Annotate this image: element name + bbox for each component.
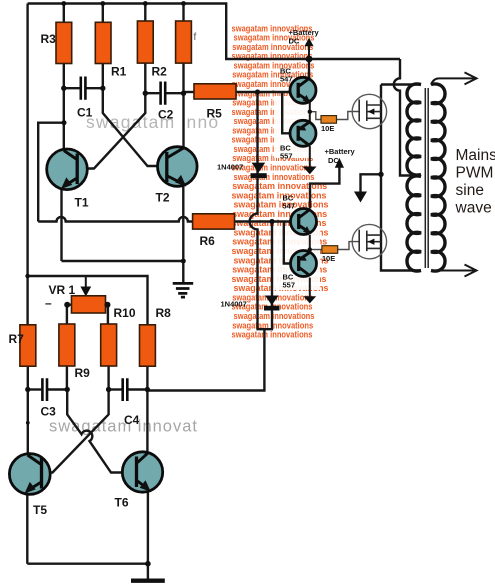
wire R2 top stub xyxy=(144,4,146,23)
wire BC557-2 collector down xyxy=(309,278,311,298)
resistor R3 xyxy=(56,22,72,63)
junction dots top rail xyxy=(61,1,66,6)
arrow secondary bottom xyxy=(465,265,477,277)
resistor R9 xyxy=(59,324,75,366)
junction dot frame to lower line xyxy=(25,274,30,279)
wire MOSFET vertical bus to primary bottom xyxy=(381,85,421,271)
svg-text:1N4007: 1N4007 xyxy=(217,163,243,172)
svg-text:R3: R3 xyxy=(41,32,57,46)
arrow +Battery mid xyxy=(335,158,344,168)
wire C1 left lead xyxy=(64,87,80,89)
resistor 10E upper xyxy=(321,116,337,124)
svg-text:557: 557 xyxy=(280,152,293,161)
junction dot R6 line diode tap xyxy=(269,219,274,224)
svg-text:C3: C3 xyxy=(41,405,57,419)
transistor T5 xyxy=(9,454,50,495)
junction dot C2 left xyxy=(143,91,148,96)
junction dot C3 right xyxy=(65,387,70,392)
svg-text:547: 547 xyxy=(283,202,296,211)
svg-text:PWM: PWM xyxy=(456,165,494,182)
svg-text:R8: R8 xyxy=(156,306,172,320)
wire C3 right lead xyxy=(48,388,67,390)
diode D1 1N4007 xyxy=(252,163,266,173)
MOSFET M1 upper xyxy=(352,94,386,128)
svg-text:R9: R9 xyxy=(75,366,91,380)
wire T6 emitter down xyxy=(147,489,149,564)
junction dot C2 right xyxy=(181,91,186,96)
svg-text:R2: R2 xyxy=(152,65,168,79)
junction dot VR1 left xyxy=(64,302,70,308)
junction dot drive branch xyxy=(62,120,67,125)
wire T2 emitter to ground xyxy=(182,185,184,283)
wire secondary bottom output xyxy=(431,270,475,272)
svg-text:R7: R7 xyxy=(9,332,25,346)
junction dot upper emitters xyxy=(308,110,312,114)
wire emitters to 10E xyxy=(310,112,321,120)
svg-text:DC: DC xyxy=(328,156,339,165)
junction dot C1 left xyxy=(61,86,66,91)
svg-text:C2: C2 xyxy=(158,108,174,122)
white fade patch behind upper driver pair xyxy=(274,96,320,158)
wire R8 to T6 collector xyxy=(146,366,148,453)
svg-text:sine: sine xyxy=(456,182,484,199)
wire R9 to T6 base diagonal (hop at crossing) xyxy=(67,366,127,473)
junction dot C4 right xyxy=(145,387,150,392)
junction dot C3 left xyxy=(25,387,30,392)
wire C2 right lead xyxy=(166,92,183,94)
resistor R2 xyxy=(137,21,153,63)
wire R7 to T5 collector xyxy=(27,366,29,455)
potentiometer VR1 xyxy=(72,296,106,313)
resistor R10 xyxy=(101,324,117,366)
wire C3 left lead xyxy=(28,388,41,390)
wire T2 collector from R4 xyxy=(182,63,184,147)
wire top +V rail xyxy=(28,4,400,60)
wire drive line to R6 (hops T1,T2 emitters) xyxy=(38,217,192,222)
junction dot MOSFET source bus xyxy=(378,172,383,177)
wire VR1 right terminal to R10 xyxy=(106,305,108,325)
wire M1 drain to primary top xyxy=(381,83,421,85)
wire diode feed down-left to lower astable xyxy=(147,329,264,390)
svg-text:C1: C1 xyxy=(77,106,93,120)
transistor BC547 upper (Q1) xyxy=(290,77,316,103)
MOSFET M2 lower xyxy=(352,224,386,258)
resistor R1 xyxy=(95,22,111,63)
wire R3 top stub xyxy=(63,4,65,24)
wire T5 emitter down xyxy=(26,492,28,564)
svg-text:wave: wave xyxy=(455,200,492,217)
svg-text:547: 547 xyxy=(280,75,293,84)
wire R5 left lead xyxy=(184,91,195,93)
svg-text:swagatam innovations: swagatam innovations xyxy=(232,330,313,340)
transistor BC547 lower (Q3) xyxy=(291,209,317,235)
junction dot rail above Q1 xyxy=(306,56,313,63)
transistor T2 xyxy=(158,147,198,187)
resistor R6 xyxy=(193,214,235,229)
svg-text:10E: 10E xyxy=(321,124,334,133)
wire 1N4007 upper diode line xyxy=(250,92,258,329)
wire bottom emitter rail xyxy=(27,563,148,565)
wire T1 emitter down xyxy=(60,189,62,262)
junction dot bottom rail xyxy=(145,561,151,567)
svg-text:557: 557 xyxy=(283,281,296,290)
arrow +Battery top xyxy=(304,38,313,47)
wire BC557-1 collector down xyxy=(309,146,311,168)
transformer primary lower winding xyxy=(407,176,421,271)
arrow BC557-2 collector to negative xyxy=(303,296,316,303)
wire R2 to T1 base diagonal xyxy=(80,93,146,168)
resistor R4 xyxy=(176,21,192,63)
transistor BC557 lower (Q4) xyxy=(291,251,317,277)
wire R5 to BC547 bases xyxy=(236,91,297,93)
wire VR1 left terminal to R9 xyxy=(67,305,72,325)
resistor R8 xyxy=(140,325,156,366)
junction dot emitter join xyxy=(181,259,186,264)
white fade patch behind lower driver pair xyxy=(272,228,320,290)
wire R1 to T2 base diagonal xyxy=(103,64,159,167)
wire 1N4007 lower diode line xyxy=(271,222,273,330)
resistor 10E lower xyxy=(322,246,338,254)
resistor R7 xyxy=(20,325,36,366)
transformer secondary winding xyxy=(431,84,445,271)
junction dot C4 left xyxy=(106,387,111,392)
capacitor C4 xyxy=(123,378,128,401)
wire emitters to 10E-2 xyxy=(310,249,322,251)
capacitor C2 xyxy=(161,82,166,105)
wire lower astable top line xyxy=(28,276,148,326)
svg-text:R10: R10 xyxy=(114,306,136,320)
junction dot lower emitters xyxy=(308,247,312,251)
transistor BC557 upper (Q2) xyxy=(290,120,316,146)
wire source ground branch xyxy=(361,174,382,192)
arrow BC557-1 collector to negative xyxy=(303,167,317,175)
wire lower base tie vertical xyxy=(284,222,297,264)
wire 10E to M1 gate xyxy=(337,112,360,120)
wire upper emitters junction xyxy=(309,102,311,122)
resistor R5 xyxy=(194,84,236,99)
wire VR1 wiper stem xyxy=(85,276,87,287)
wire C1 right lead xyxy=(86,87,102,89)
svg-text:+Battery: +Battery xyxy=(325,147,356,156)
wire upper base tie vertical xyxy=(282,92,296,133)
svg-text:C4: C4 xyxy=(124,413,140,427)
transformer primary upper winding xyxy=(407,84,421,175)
wire ground stem bottom xyxy=(147,564,149,579)
wire T1 collector from R3 xyxy=(63,64,65,151)
wire center tap from +V rail (hops drain wire) xyxy=(394,59,421,176)
wire C4 left lead xyxy=(109,388,122,390)
wire +Battery top arrow stem xyxy=(308,46,310,60)
svg-text:T6: T6 xyxy=(115,496,129,510)
wire BC547-1 collector to rail xyxy=(308,59,310,79)
wire C4 right lead xyxy=(128,388,147,390)
wire BC547-2 collector to +Battery arrow xyxy=(310,167,339,209)
svg-text:–: – xyxy=(45,296,52,310)
svg-text:R1: R1 xyxy=(111,65,127,79)
transformer core xyxy=(425,88,428,268)
svg-text:+Battery: +Battery xyxy=(289,28,320,37)
wire diode merge bridge xyxy=(256,328,273,330)
arrow secondary top xyxy=(465,72,477,84)
wire lower emitters junction xyxy=(309,235,311,250)
svg-text:R6: R6 xyxy=(200,234,216,248)
svg-text:T5: T5 xyxy=(33,503,47,517)
wire 10E-2 to M2 gate xyxy=(338,242,360,250)
diode D2 1N4007 xyxy=(265,296,279,306)
svg-text:1N4007: 1N4007 xyxy=(221,300,247,309)
ground bottom rail xyxy=(131,579,165,583)
wire R4 top stub xyxy=(182,4,184,23)
svg-text:10E: 10E xyxy=(322,254,335,263)
ground below T2 xyxy=(173,283,194,297)
wire left frame rail xyxy=(26,4,28,326)
svg-text:DC: DC xyxy=(289,37,300,46)
svg-text:T1: T1 xyxy=(75,196,89,210)
transistor T1 xyxy=(47,149,88,190)
wire R1 top stub xyxy=(102,4,104,24)
svg-text:T2: T2 xyxy=(156,191,170,205)
capacitor C1 xyxy=(81,77,86,100)
wire R10 to T5 base diagonal xyxy=(41,366,109,473)
wire T1 collector branch to drive line xyxy=(38,123,64,222)
junction dot C1 right xyxy=(100,86,105,91)
capacitor C3 xyxy=(42,378,47,401)
junction dot on T5 collector line xyxy=(26,421,30,425)
wire C2 left lead xyxy=(145,63,159,93)
junction dot VR1 right xyxy=(105,302,111,308)
svg-text:R5: R5 xyxy=(207,107,223,121)
svg-text:Mains: Mains xyxy=(456,147,495,164)
wire emitter join horizontal xyxy=(62,260,184,262)
arrow VR1 wiper xyxy=(80,287,91,297)
transistor T6 xyxy=(122,452,162,492)
wire secondary top output xyxy=(431,78,475,84)
svg-text:VR 1: VR 1 xyxy=(49,283,76,297)
junction dot R5 line diode tap xyxy=(255,89,260,94)
wire R6 right lead to lower bases (hops diode line) xyxy=(235,220,297,222)
arrow ground for MOSFET sources xyxy=(354,192,367,203)
svg-text:f: f xyxy=(194,32,197,43)
